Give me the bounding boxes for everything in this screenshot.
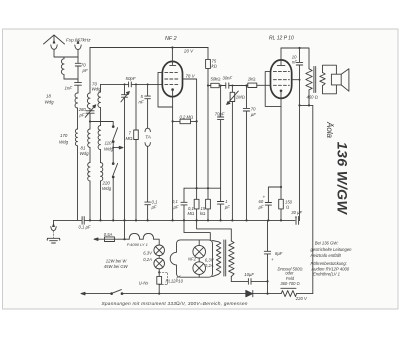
node primary B+ <box>308 104 310 106</box>
wire rectifier to choke <box>268 293 282 295</box>
wire mains winding to 10uF <box>230 277 232 282</box>
node 0.1M bus <box>196 219 198 221</box>
svg-text:Endröhre(LV 1: Endröhre(LV 1 <box>313 272 340 277</box>
ground bus wire <box>54 219 296 221</box>
band switch S1 <box>112 126 117 143</box>
wire B+ down to rectifier <box>312 105 314 293</box>
svg-text:RL12P10: RL12P10 <box>166 279 184 284</box>
wire grid line left <box>101 83 129 85</box>
coil L2 70 Wdg <box>87 93 90 109</box>
wire 150 Ohm to bus <box>280 209 282 221</box>
svg-text:Wdg: Wdg <box>45 100 55 105</box>
svg-text:µF: µF <box>225 205 230 210</box>
svg-text:MΩ: MΩ <box>188 211 195 216</box>
svg-text:220 V: 220 V <box>295 296 308 301</box>
wire L3 to L6 <box>100 108 102 126</box>
tube NF2 envelope <box>162 61 182 96</box>
node junction 280pF bottom <box>89 120 91 122</box>
annotation Bei 136 GW <box>310 240 352 276</box>
wire fuse to barretter <box>115 238 130 240</box>
node trimmer tap on grid line <box>124 83 126 85</box>
dashed GW bypass <box>159 272 167 284</box>
wire feedback column top (to plate bus) <box>89 48 91 94</box>
wire barretter to dial lamps <box>154 239 160 245</box>
svg-text:460 Ω: 460 Ω <box>307 95 318 100</box>
potentiometer 1 MOhm volume <box>227 86 239 221</box>
output transformer primary winding <box>306 69 312 90</box>
coil L4 170 Wdg <box>75 129 77 146</box>
svg-text:10µF: 10µF <box>244 272 254 277</box>
capacitor 50pF grid coupling <box>129 82 132 87</box>
wire bus to heater loop <box>184 220 210 240</box>
fuse 0.5A <box>105 237 115 242</box>
decoupling line y188 <box>184 187 221 189</box>
NF2 grid g2 dashes <box>165 78 178 80</box>
node 70uF bus <box>245 219 247 221</box>
wire dropper to mains line <box>158 284 160 293</box>
RL12P10 cathode wire <box>280 98 282 187</box>
wire cathode to 0.2M resistor <box>173 120 180 122</box>
svg-text:NF 2: NF 2 <box>165 36 177 42</box>
coil L7 <box>88 163 90 181</box>
node RL grid circuit junction <box>245 84 247 86</box>
wire 10uF line <box>231 280 267 282</box>
wire 0.2M to screen line <box>191 120 197 122</box>
wire trap loop top <box>64 56 78 58</box>
coil L1 18 Wdg <box>75 93 78 108</box>
svg-text:1: 1 <box>225 199 227 204</box>
node 150 Ohm bus <box>280 219 282 221</box>
svg-text:30nF: 30nF <box>223 76 233 81</box>
wire plate bus corner down to 75k <box>207 48 209 60</box>
wire L4 to ground bus <box>77 146 79 221</box>
RL12P10 anode plate <box>277 65 285 67</box>
RL12P10 g3 tie wire <box>265 72 281 107</box>
dial lamp feed wire with fuse <box>94 238 105 241</box>
RL12P10 g1 dashes <box>273 84 289 86</box>
capacitor 10nF <box>296 48 302 105</box>
node grid leak bus <box>135 219 137 221</box>
antenna socket 2 <box>75 45 81 50</box>
svg-text:70: 70 <box>81 63 86 68</box>
svg-text:Wdg: Wdg <box>80 151 90 156</box>
svg-text:6,3V: 6,3V <box>205 257 215 262</box>
rectifier diode <box>246 290 268 296</box>
svg-text:78 V: 78 V <box>186 74 196 79</box>
RL12P10 g2 dashes <box>273 79 289 81</box>
svg-text:360-700 Ω: 360-700 Ω <box>280 281 299 286</box>
wire S1 to S2 <box>112 142 114 163</box>
svg-text:Wdg: Wdg <box>59 140 69 145</box>
wire bus left end down <box>53 220 55 226</box>
resistor 75 kOhm <box>206 59 211 68</box>
coil L6 110 Wdg <box>98 125 100 149</box>
resistor 1 kOhm grid stopper <box>247 83 271 87</box>
svg-text:136 W/GW: 136 W/GW <box>334 142 350 216</box>
NF2 cathode <box>171 88 174 96</box>
node screen line junction <box>196 120 198 122</box>
node HT junction <box>207 84 209 86</box>
svg-text:Wdg: Wdg <box>104 147 114 152</box>
svg-text:RL 12 P 10: RL 12 P 10 <box>269 36 294 42</box>
node 10uF to rectifier <box>266 280 268 282</box>
svg-text:12W bei W: 12W bei W <box>106 259 128 264</box>
node L7 bus <box>89 219 91 221</box>
capacitor 0.1uF (TA line) <box>145 202 151 220</box>
node volume pot tap <box>231 85 233 87</box>
svg-text:0,1: 0,1 <box>172 199 178 204</box>
wire B+ branch to filter cap <box>299 105 301 220</box>
variable capacitor 280pF <box>85 105 96 122</box>
svg-text:45W bei GW: 45W bei GW <box>104 264 129 269</box>
coil L5 81 Wdg <box>88 129 90 147</box>
capacitor 10uF <box>248 279 251 285</box>
svg-text:70pF: 70pF <box>215 111 225 116</box>
capacitor 70pF of trap <box>75 57 80 79</box>
resistor 150 Ohm <box>279 199 284 209</box>
svg-text:µF: µF <box>174 205 179 210</box>
svg-text:0,2 MΩ: 0,2 MΩ <box>180 114 194 119</box>
svg-text:pF: pF <box>82 68 88 73</box>
svg-text:Wdg: Wdg <box>92 87 102 92</box>
speaker cone <box>341 69 349 92</box>
wire socket2 to trap top <box>77 50 79 58</box>
filter choke core bar <box>281 287 296 289</box>
svg-text:kΩ: kΩ <box>200 211 205 216</box>
wire TA to 0.1uF <box>147 146 149 201</box>
node 1uF bus <box>220 219 222 221</box>
node lamp string mains <box>158 293 160 295</box>
tube RL12P10 envelope <box>271 60 292 99</box>
svg-text:170: 170 <box>60 133 68 138</box>
svg-text:0,1 µF: 0,1 µF <box>79 225 91 230</box>
svg-text:20 V: 20 V <box>183 49 194 54</box>
svg-text:280: 280 <box>78 107 87 112</box>
filter choke winding <box>281 291 296 297</box>
svg-text:220: 220 <box>102 181 111 186</box>
svg-text:nF: nF <box>292 60 297 65</box>
wire grid leak lower <box>135 140 137 221</box>
resistor 0.2 MOhm <box>180 119 191 124</box>
svg-text:TA: TA <box>145 135 151 140</box>
coil L8 220 Wdg <box>101 163 103 181</box>
svg-text:8µF: 8µF <box>275 251 283 256</box>
wire 0.1M to bus <box>196 188 198 220</box>
RL12P10 g2 wire to B+ <box>292 79 300 81</box>
node pot bus <box>231 219 233 221</box>
wire grid column top <box>100 84 102 92</box>
capacitor 8uF <box>264 251 270 254</box>
NF2 screen lead wire <box>183 79 197 188</box>
ground lead dashed <box>53 231 55 238</box>
barretter link <box>140 238 144 240</box>
wire 8uF line <box>267 220 269 293</box>
wire antenna to trap <box>54 49 64 57</box>
dial lamp 2 <box>154 258 165 269</box>
resistor 50 kOhm <box>211 83 219 87</box>
node L8 bus <box>99 219 101 221</box>
svg-text:50kΩ: 50kΩ <box>211 77 221 82</box>
node 10nF tap <box>298 47 300 49</box>
svg-text:+: + <box>271 257 274 262</box>
svg-text:0,2A: 0,2A <box>205 263 214 268</box>
wire L5 to L7 <box>89 147 91 162</box>
screen divider resistor 0.1 MOhm <box>194 199 199 209</box>
svg-text:70: 70 <box>251 107 256 112</box>
wire to band switch 1 <box>90 122 113 126</box>
heater RL12P10 lamp <box>193 262 206 275</box>
capacitor 0.1uF antenna bus <box>82 217 84 225</box>
wire 50k to 30nF <box>219 85 225 87</box>
ground socket cup <box>51 224 56 231</box>
wire S2 to ground bus <box>112 177 114 220</box>
svg-text:81: 81 <box>81 146 86 151</box>
node 0.1uF bus <box>183 219 185 221</box>
svg-text:kΩ: kΩ <box>212 64 217 69</box>
NF2 grid g3 dashes <box>165 71 178 73</box>
wire HT to 50k <box>208 85 211 87</box>
node 15k bus <box>207 219 209 221</box>
NF2 anode plate <box>170 64 176 66</box>
svg-text:Wdg: Wdg <box>102 186 112 191</box>
wire cathode to 150 Ohm <box>280 187 282 199</box>
svg-text:µF: µF <box>251 112 256 117</box>
speaker driver box <box>331 74 341 85</box>
svg-text:110: 110 <box>105 141 113 146</box>
wire HT line down to 15k <box>207 86 209 189</box>
RL12P10 plate wire to output transformer <box>281 48 309 69</box>
wire lamp2 to dropper <box>158 269 160 277</box>
heater loop outline <box>170 240 212 277</box>
barretter bump 2 <box>143 233 153 239</box>
barretter bump 1 <box>129 233 139 239</box>
node grid-leak tap <box>135 83 137 85</box>
wire 75k to HT node <box>207 68 209 85</box>
svg-text:µF: µF <box>152 205 157 210</box>
heater transformer core <box>224 240 226 276</box>
coil L3 <box>98 92 101 108</box>
wire bus to mains winding <box>197 220 232 241</box>
heater transformer mains winding <box>229 241 234 277</box>
output transformer secondary winding <box>320 73 325 86</box>
wire speaker loop top <box>323 65 337 74</box>
wire L8 to ground bus <box>100 181 102 221</box>
mains wire to rectifier <box>122 293 246 295</box>
phono jack TA upper <box>145 128 150 132</box>
svg-text:+: + <box>295 215 298 220</box>
node trimmer bus <box>123 219 125 221</box>
wire trimmer line to mains fuse line <box>124 220 126 239</box>
node g2 B+ <box>299 79 301 81</box>
output transformer core <box>314 67 316 93</box>
mains input wire left <box>81 292 111 295</box>
svg-text:60: 60 <box>259 199 264 204</box>
svg-text:6,3V: 6,3V <box>143 251 153 256</box>
wire speaker loop bottom <box>323 85 337 94</box>
svg-text:+: + <box>263 195 266 200</box>
node fuse line chassis tap <box>123 238 125 240</box>
NF2 anode lead <box>171 48 173 65</box>
svg-text:Heiztrafo entfällt: Heiztrafo entfällt <box>311 253 342 258</box>
antenna socket 2 stub <box>77 41 79 44</box>
wire trap loop bottom <box>64 78 78 80</box>
svg-text:0,2A: 0,2A <box>143 257 152 262</box>
svg-text:Ω: Ω <box>286 205 289 210</box>
node dropper top <box>158 271 160 273</box>
resistor 15 kOhm divider <box>206 188 211 220</box>
NF2 grid g1 dashes <box>165 83 178 85</box>
antenna A1 <box>44 35 65 44</box>
node NF2 anode on plate bus <box>171 46 173 48</box>
trimmer capacitor <box>121 84 129 220</box>
RL12P10 anode lead <box>280 48 282 65</box>
svg-text:1nF: 1nF <box>65 86 73 91</box>
node 60uF bus <box>267 219 269 221</box>
capacitor 70pF tone <box>218 86 224 189</box>
wire grid leak upper <box>135 84 137 130</box>
capacitor 5nF <box>145 84 151 127</box>
heater NF2 lamp <box>193 245 206 258</box>
svg-text:oder: oder <box>285 271 294 276</box>
heater transformer 6.3V winding <box>213 241 221 277</box>
node screen line y188 <box>196 187 198 189</box>
node cathode RC junction <box>280 186 282 188</box>
svg-text:U-Ns: U-Ns <box>139 280 149 285</box>
svg-text:gestrichelte Leitungen: gestrichelte Leitungen <box>311 247 353 252</box>
svg-text:P.4090 LY 1: P.4090 LY 1 <box>127 242 148 247</box>
svg-text:pF: pF <box>79 113 85 118</box>
node cathode junction 0.2M <box>172 120 174 122</box>
svg-text:NF2: NF2 <box>188 257 197 262</box>
band switch S2 <box>112 163 117 178</box>
node 70pF tap <box>220 85 222 87</box>
wire choke to B+ riser <box>297 293 313 295</box>
svg-text:µF: µF <box>259 205 264 210</box>
dropper resistor <box>157 276 162 284</box>
node S2 bus <box>112 219 114 221</box>
coil of trap (Sperrkreis) <box>61 57 64 79</box>
electrolytic 30uF filter (in bus) <box>296 216 300 224</box>
NF2 g3 tie wire to cathode <box>158 72 173 107</box>
node TA line bus <box>147 219 149 221</box>
NF2 cathode wire down <box>172 97 174 221</box>
svg-text:18: 18 <box>46 94 51 99</box>
wire L1 to L4 <box>77 108 79 129</box>
wire 30nF to grid node <box>229 85 247 87</box>
wire L7 to ground bus <box>89 181 91 221</box>
electrolytic 70uF <box>243 86 249 221</box>
resistor 7 MOhm <box>134 130 139 140</box>
capacitor 0.1uF decoupling <box>181 188 187 220</box>
wire grid line right into NF2 <box>131 83 162 85</box>
phono jack TA lower <box>145 143 150 147</box>
svg-text:MΩ: MΩ <box>126 136 133 141</box>
wire L2 to L5 <box>89 114 91 129</box>
svg-text:50pF: 50pF <box>126 76 136 81</box>
ground symbol <box>47 238 60 243</box>
label RL12P10 heater with leader <box>166 276 184 284</box>
svg-text:1MΩ: 1MΩ <box>236 95 245 100</box>
RL12P10 g3 dashes <box>273 71 289 73</box>
svg-text:nF: nF <box>139 100 144 105</box>
antenna socket 1 <box>51 45 57 50</box>
RL12P10 cathode <box>280 90 283 99</box>
mains switch <box>111 290 123 295</box>
node TA tap on grid line <box>147 83 149 85</box>
node rectifier output <box>266 293 268 295</box>
label Drossel text block <box>278 266 303 286</box>
capacitor C 1nF <box>75 79 82 93</box>
plate bus wire (feedback to NF2 anode) <box>90 47 208 49</box>
wire L6 to L8 <box>100 150 102 163</box>
node regen arrow branch <box>112 147 114 149</box>
capacitor 1uF <box>217 188 223 220</box>
node 10nF bottom B+ <box>298 104 300 106</box>
svg-text:Spannungen mit Instrument 333Ω: Spannungen mit Instrument 333Ω/V, 300V=B… <box>102 301 248 307</box>
capacitor 30nF coupling <box>226 83 229 88</box>
electrolytic 60uF cathode bypass <box>265 187 281 220</box>
node 15k top <box>207 187 209 189</box>
heater column wire <box>198 240 200 277</box>
regeneration arrow wire <box>113 146 123 149</box>
wire lamp1 to lamp2 <box>158 256 160 259</box>
node NF2 cathode bus <box>172 219 174 221</box>
svg-text:0,5A: 0,5A <box>104 232 113 237</box>
wire primary bottom to B+ <box>308 90 310 106</box>
svg-text:Äola: Äola <box>325 121 334 139</box>
svg-text:Bei 136 GW:: Bei 136 GW: <box>315 240 339 245</box>
dial lamp 1 <box>154 245 165 256</box>
wire B+ horizontal <box>300 104 313 106</box>
svg-text:1kΩ: 1kΩ <box>248 77 256 82</box>
